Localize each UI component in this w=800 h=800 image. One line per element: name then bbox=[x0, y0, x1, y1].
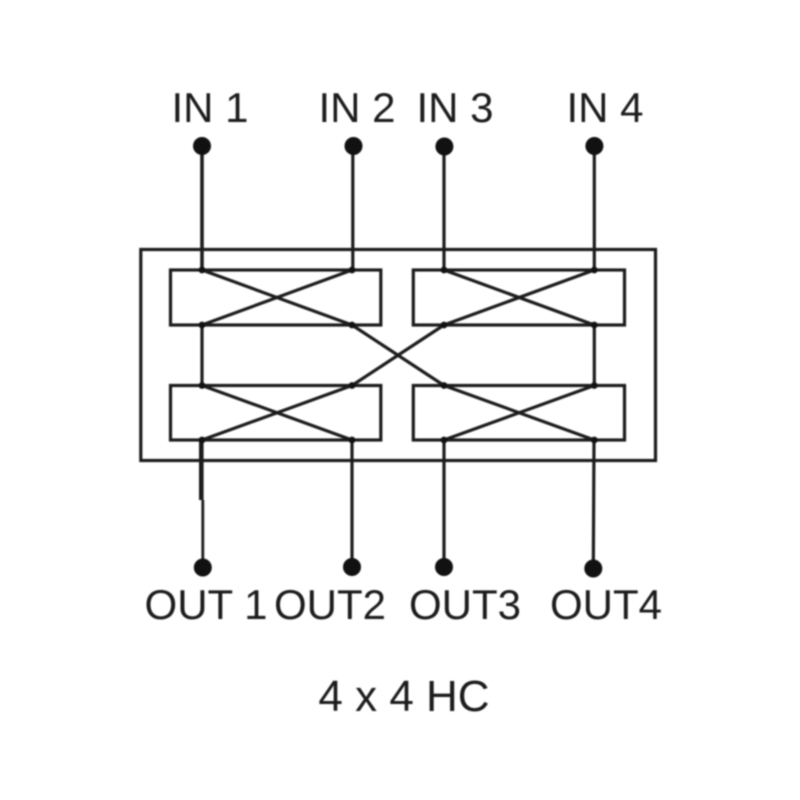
terminal dot OUT4 bbox=[584, 560, 602, 578]
wire U4 to OUT3 bbox=[442, 440, 445, 567]
svg-text:IN 4: IN 4 bbox=[566, 84, 643, 131]
wire U2 to U3 crossover bbox=[352, 325, 444, 386]
U1 cross diagonal a bbox=[202, 270, 352, 325]
svg-text:OUT4: OUT4 bbox=[550, 581, 662, 628]
junction dot U4 out-right bbox=[591, 437, 598, 444]
svg-text:OUT3: OUT3 bbox=[409, 581, 521, 628]
junction dot U3 out-right bbox=[349, 437, 356, 444]
U4 cross diagonal a bbox=[444, 386, 594, 441]
wire U2 to U4 straight bbox=[593, 325, 596, 386]
terminal dot IN1 bbox=[193, 137, 211, 155]
wire U3 to OUT1 (thick upper segment) bbox=[199, 440, 204, 500]
wire IN4 to U2 bbox=[593, 146, 596, 270]
wire IN1 to U1 bbox=[200, 146, 204, 270]
U4 cross diagonal b bbox=[444, 386, 594, 441]
U3 cross diagonal b bbox=[202, 386, 352, 441]
svg-text:OUT2: OUT2 bbox=[274, 581, 386, 628]
wire U1 to U4 crossover bbox=[352, 325, 444, 386]
terminal dot IN2 bbox=[345, 137, 363, 155]
svg-text:4 x 4 HC: 4 x 4 HC bbox=[318, 672, 489, 721]
wire IN2 to U1 bbox=[351, 146, 354, 270]
wire U3 to OUT2 bbox=[350, 440, 353, 567]
U1 cross diagonal b bbox=[202, 270, 352, 325]
junction dot U3 in-right bbox=[349, 382, 356, 389]
coupler box U2 (top-right 2x2 HC) bbox=[413, 270, 624, 325]
terminal dot OUT3 bbox=[435, 558, 453, 576]
terminal dot IN4 bbox=[585, 137, 603, 155]
U2 cross diagonal b bbox=[444, 270, 594, 325]
outer enclosure rectangle bbox=[141, 250, 656, 461]
junction dot U4 in-right bbox=[591, 382, 598, 389]
coupler box U1 (top-left 2x2 HC) bbox=[171, 270, 381, 325]
junction dot U2 in-right bbox=[591, 267, 598, 274]
svg-text:IN 1: IN 1 bbox=[171, 84, 248, 131]
terminal dot IN3 bbox=[435, 138, 453, 156]
junction dot U1 in-right bbox=[349, 267, 356, 274]
coupler box U4 (bottom-right 2x2 HC) bbox=[413, 386, 624, 441]
U2 cross diagonal a bbox=[444, 270, 594, 325]
wire IN3 to U2 bbox=[442, 147, 445, 271]
wire U3 to OUT1 (thin lower segment) bbox=[201, 500, 204, 568]
terminal dot OUT1 bbox=[194, 559, 212, 577]
junction dot U1 out-right bbox=[349, 322, 356, 329]
wire U1 to U3 straight bbox=[200, 325, 203, 386]
terminal dot OUT2 bbox=[343, 558, 361, 576]
junction dot U1 in-left bbox=[199, 267, 206, 274]
junction dot U3 out-left bbox=[199, 437, 206, 444]
junction dot U2 out-left bbox=[441, 322, 448, 329]
junction dot U1 out-left bbox=[199, 322, 206, 329]
svg-text:IN 3: IN 3 bbox=[416, 84, 493, 131]
svg-text:OUT 1: OUT 1 bbox=[145, 581, 268, 628]
junction dot U4 in-left bbox=[441, 382, 448, 389]
coupler box U3 (bottom-left 2x2 HC) bbox=[171, 386, 381, 441]
svg-text:IN 2: IN 2 bbox=[318, 84, 395, 131]
junction dot U2 in-left bbox=[441, 267, 448, 274]
wire U4 to OUT4 bbox=[592, 440, 596, 569]
junction dot U4 out-left bbox=[441, 437, 448, 444]
junction dot U3 in-left bbox=[199, 382, 206, 389]
U3 cross diagonal a bbox=[202, 386, 352, 441]
junction dot U2 out-right bbox=[591, 322, 598, 329]
